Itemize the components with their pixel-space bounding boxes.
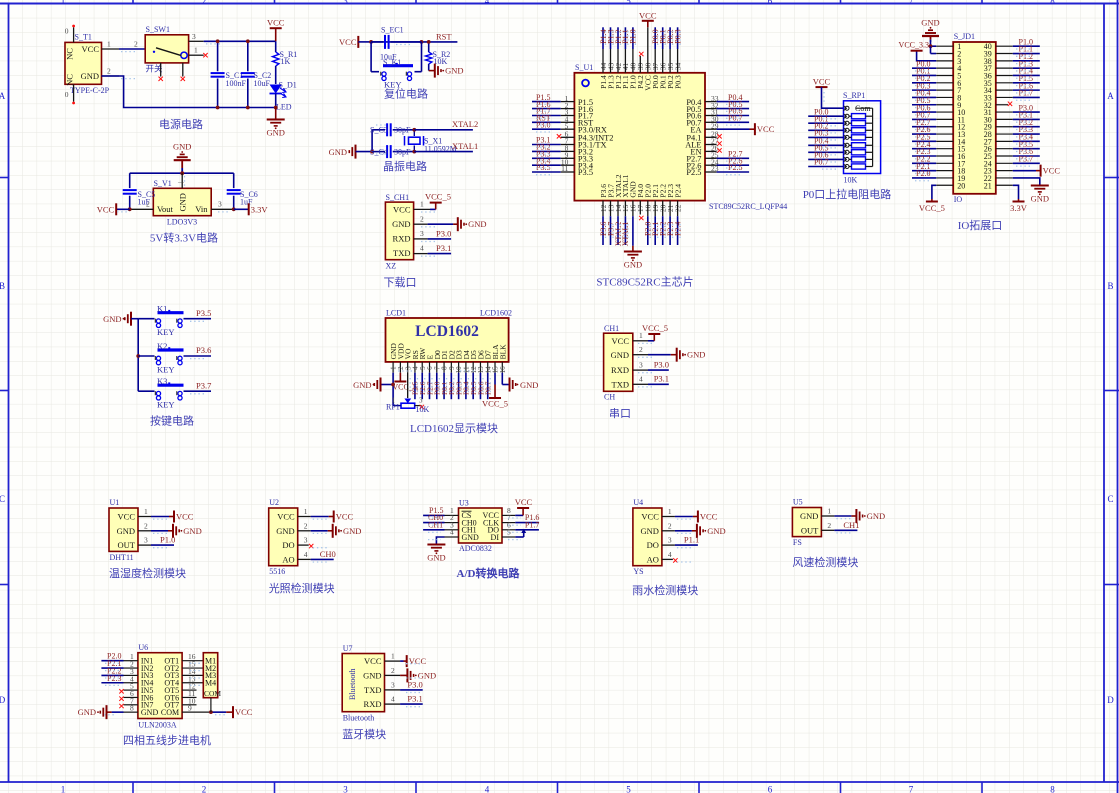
U1 pin 8 P3.2 [532, 143, 593, 157]
ADC U3 ADC0832 body [459, 499, 503, 554]
svg-text:3: 3 [639, 360, 643, 369]
U1 pin 17 P4.0 (bottom) [636, 184, 645, 220]
svg-text:S_JD1: S_JD1 [954, 32, 975, 41]
pushbutton K1 (reset) [371, 42, 421, 90]
U6 pin 1 IN1 [101, 652, 137, 662]
U6 pin 9 COM [182, 704, 253, 719]
svg-text:VCC: VCC [235, 707, 253, 717]
JD1 pin 35 [996, 74, 1040, 83]
svg-text:VCC: VCC [639, 10, 657, 20]
net label P3.5 [196, 308, 211, 318]
JD1 pin 36 [996, 67, 1040, 76]
ground GND above LDO [173, 142, 191, 174]
LCD pin 8 net P0.1 [440, 373, 449, 400]
JD1 pin 30 [996, 111, 1040, 120]
svg-text:电源电路: 电源电路 [159, 117, 203, 131]
svg-text:VCC_5: VCC_5 [482, 399, 508, 409]
U1 pin 43 P1.3 (top) [606, 27, 615, 89]
svg-text:下载口: 下载口 [384, 276, 417, 289]
svg-text:DO: DO [647, 540, 659, 550]
LCD pin 10 [455, 362, 463, 374]
U1 pin 36 P0.1 (top) [659, 27, 668, 89]
U3 pin 6 net P1.7 [502, 520, 539, 529]
JD1 pin 5 net P0.1 [912, 67, 953, 76]
LCD pin 4 net P2.5 [411, 373, 420, 400]
net label RST [436, 32, 452, 42]
U1 pin 1 VCC [138, 507, 194, 523]
connector T1 (TYPE-C-2P) [65, 33, 110, 96]
caption P0 pullup [803, 187, 892, 201]
wire XTAL1 [414, 141, 478, 152]
svg-text:温湿度检测模块: 温湿度检测模块 [109, 566, 186, 580]
module U5 body [792, 498, 821, 548]
svg-text:晶振电路: 晶振电路 [383, 159, 427, 173]
svg-text:2: 2 [202, 0, 207, 6]
svg-text:TYPE-C-2P: TYPE-C-2P [70, 86, 110, 95]
JD1 pin 1 GND [929, 42, 954, 48]
RP1 net P0.4 [808, 137, 843, 146]
svg-text:S_C3: S_C3 [370, 126, 388, 135]
svg-text:VCC: VCC [118, 512, 136, 522]
svg-text:1: 1 [391, 652, 395, 661]
LCD pin 5 net P2.6 [418, 373, 427, 400]
LCD pin 11 net P0.4 [462, 373, 471, 400]
svg-text:U1: U1 [110, 498, 120, 507]
T1 pin 0 top stub [65, 25, 75, 43]
RP1 net P0.6 [808, 151, 843, 160]
U4 pin 1 VCC [662, 507, 718, 523]
LCD pin 12 [470, 362, 478, 374]
svg-text:1K: 1K [281, 57, 291, 66]
svg-text:C: C [0, 494, 5, 504]
svg-text:2: 2 [107, 67, 111, 76]
caption LCD module [410, 422, 498, 435]
svg-text:5: 5 [626, 785, 631, 793]
JD1 pin 37 [996, 59, 1040, 68]
svg-text:KEY: KEY [157, 364, 174, 374]
svg-text:LCD1: LCD1 [386, 309, 406, 318]
svg-text:21: 21 [984, 181, 992, 190]
svg-text:A/D转换电路: A/D转换电路 [457, 566, 521, 580]
svg-text:串口: 串口 [609, 407, 631, 420]
svg-text:U2: U2 [269, 498, 279, 507]
module U1 body [109, 498, 138, 562]
svg-text:A: A [0, 91, 6, 101]
svg-text:IO拓展口: IO拓展口 [958, 218, 1003, 232]
svg-text:GND: GND [141, 708, 159, 717]
svg-text:GND: GND [81, 71, 99, 81]
LCD pin 11 [463, 362, 471, 373]
svg-text:2: 2 [420, 214, 424, 223]
wire LDO top bus [130, 171, 234, 209]
svg-text:复位电路: 复位电路 [384, 87, 428, 101]
svg-text:P3.5: P3.5 [578, 168, 593, 177]
SW1 pin 3 [189, 32, 204, 42]
LCD pin 7 [433, 362, 441, 373]
svg-text:8: 8 [1050, 0, 1055, 6]
svg-text:VCC_5: VCC_5 [642, 323, 668, 333]
RP1 net P0.5 [808, 144, 843, 153]
svg-text:OUT: OUT [801, 525, 819, 535]
svg-text:P0口上拉电阻电路: P0口上拉电阻电路 [803, 187, 892, 201]
capacitor C3 30pF [370, 123, 414, 136]
svg-text:按键电路: 按键电路 [150, 414, 194, 428]
svg-text:1: 1 [827, 507, 831, 516]
U1 pin 26 EN [690, 144, 721, 157]
U3 pin 4 to GND [427, 528, 458, 563]
U1 pin 18 P2.0 (bottom) [644, 184, 653, 245]
svg-text:4: 4 [450, 528, 454, 537]
svg-text:3.3V: 3.3V [1010, 203, 1028, 213]
svg-text:Bluetooth: Bluetooth [348, 668, 357, 700]
svg-text:5V转3.3V电路: 5V转3.3V电路 [150, 231, 218, 245]
U1 pin 28 P4.1 [686, 130, 721, 143]
svg-text:4: 4 [485, 0, 490, 6]
svg-text:C: C [1107, 494, 1113, 504]
svg-text:P3.6: P3.6 [196, 345, 211, 355]
svg-text:COM: COM [204, 689, 221, 698]
caption power circuit [159, 117, 203, 131]
JD1 pin 3 VCC_3.3 [899, 41, 954, 61]
svg-text:2: 2 [304, 521, 308, 530]
svg-text:GND: GND [520, 380, 538, 390]
power VCC [267, 18, 285, 42]
U1 pin 11 P3.5 [532, 163, 593, 177]
svg-text:P3.0: P3.0 [536, 120, 550, 129]
U3 pin 1 net P1.5 [423, 506, 458, 515]
svg-text:11: 11 [561, 164, 568, 173]
svg-text:LED: LED [276, 103, 292, 112]
svg-text:VCC: VCC [97, 204, 115, 214]
svg-text:VCC: VCC [336, 512, 354, 522]
svg-text:5516: 5516 [269, 567, 285, 576]
svg-text:4: 4 [304, 550, 308, 559]
LED D1 [270, 81, 297, 112]
JD1 pin 39 [996, 45, 1040, 54]
svg-text:2: 2 [391, 666, 395, 675]
svg-text:S_K1: S_K1 [383, 58, 401, 67]
U3 pin 7 net P1.6 [502, 513, 539, 522]
svg-text:GND: GND [266, 128, 284, 138]
svg-text:2: 2 [144, 521, 148, 530]
LCD pin15 VCC_5 [482, 373, 508, 409]
wire crystal left trunk [370, 130, 374, 154]
U7 pin 4 net P3.1 [385, 694, 423, 705]
JD1 pin 20 VCC_5 [919, 185, 953, 213]
caption download port [384, 276, 417, 289]
power VCC at Vout [97, 203, 130, 215]
svg-text:D: D [0, 695, 6, 705]
svg-text:1uF: 1uF [138, 198, 151, 207]
U1 pin 14 XTAL2 (bottom) [614, 174, 623, 246]
svg-text:RXD: RXD [611, 365, 629, 375]
ground GND of keys [103, 312, 138, 326]
U6 pin 6 IN6 [119, 689, 138, 701]
svg-text:30pF: 30pF [394, 147, 411, 156]
svg-text:1: 1 [392, 397, 396, 405]
svg-text:VCC: VCC [757, 124, 775, 134]
svg-text:4: 4 [668, 550, 672, 559]
U6 pin 16 OT1 [182, 652, 203, 661]
svg-text:Vout: Vout [157, 204, 174, 214]
U3 pin 8 VCC [502, 497, 533, 515]
U1 pin 4 RST [532, 114, 593, 128]
svg-text:P2.4: P2.4 [673, 222, 682, 236]
svg-text:1: 1 [107, 40, 111, 49]
svg-text:P3.1: P3.1 [654, 374, 669, 384]
svg-text:100nF: 100nF [226, 79, 247, 88]
U1 pin 23 P2.5 [686, 163, 749, 177]
svg-text:3: 3 [218, 199, 222, 208]
svg-text:LCD1602: LCD1602 [480, 309, 512, 318]
LCD pin 12 net P0.5 [469, 373, 478, 400]
svg-text:2: 2 [827, 521, 831, 530]
svg-text:S_D1: S_D1 [279, 81, 297, 90]
svg-text:VCC: VCC [1043, 166, 1061, 176]
JD1 pin 40 [996, 37, 1040, 46]
U6 pin 7 IN7 [119, 696, 138, 708]
U1 pin 9 P3.3 [532, 150, 593, 164]
LCD pin16 wire to GND [502, 373, 508, 385]
U1 pin 1 P1.5 [532, 93, 593, 107]
connector CH1 download port [385, 193, 413, 271]
LCD pin 14 [484, 362, 492, 374]
svg-text:ULN2003A: ULN2003A [138, 721, 176, 730]
power 3.3V at Vin [234, 203, 269, 215]
svg-text:GND: GND [445, 66, 463, 76]
svg-text:P0.3: P0.3 [673, 29, 682, 43]
svg-text:1: 1 [420, 200, 424, 209]
U6 pin 11 OT6 [182, 689, 196, 698]
JD1 pin 33 [996, 89, 1040, 98]
svg-text:7: 7 [909, 785, 914, 793]
ground GND of reset [429, 64, 464, 78]
JD1 pin 7 net P0.3 [912, 81, 953, 90]
RP1 net P0.2 [808, 122, 843, 131]
svg-text:U7: U7 [343, 644, 353, 653]
svg-text:XTAL1: XTAL1 [621, 222, 630, 247]
svg-text:P1.7: P1.7 [525, 520, 539, 529]
JD1 pin 22 GND [996, 178, 1049, 204]
connector CH serial [604, 324, 633, 402]
JD1 pin 24 [996, 155, 1040, 164]
U7 pin 1 VCC [385, 652, 427, 668]
JD1 pin 19 net P2.0 [912, 169, 953, 178]
svg-text:2: 2 [134, 40, 138, 49]
svg-text:3: 3 [343, 785, 348, 793]
JD1 pin 13 net P2.6 [912, 125, 953, 134]
svg-text:GND: GND [427, 553, 445, 563]
U1 pin 21 P2.3 (bottom) [666, 184, 675, 245]
U1 pin 6 P4.3/INT2 [557, 130, 614, 143]
LCD pin 2 [397, 362, 405, 373]
svg-text:VCC: VCC [176, 512, 194, 522]
svg-text:KEY: KEY [157, 400, 174, 410]
U1 pin 40 P1.0 (top) [629, 27, 638, 89]
svg-text:TXD: TXD [364, 685, 381, 695]
U1 pin 25 P2.7 [686, 150, 749, 164]
svg-text:K1: K1 [157, 304, 167, 314]
svg-text:P3.1: P3.1 [436, 243, 451, 253]
U1 pin 13 P3.7 (bottom) [606, 184, 615, 245]
SW1 bottom stub pins [159, 63, 186, 81]
svg-text:1: 1 [61, 0, 66, 6]
potentiometer RP1 10K [386, 397, 430, 415]
U1 pin 16 GND (bottom) [624, 181, 642, 270]
crystal X1 11.0592M [405, 128, 457, 154]
svg-text:FS: FS [793, 538, 802, 547]
caption IO expansion [958, 218, 1003, 232]
U1 pin 41 P1.1 (top) [621, 27, 630, 89]
JD1 pin 26 [996, 140, 1040, 149]
T1 pin 2 [102, 67, 120, 77]
svg-text:KEY: KEY [157, 327, 174, 337]
JD1 pin 29 [996, 118, 1040, 127]
U6 pin 8 GND [78, 704, 138, 720]
JD1 pin 12 net P2.7 [912, 118, 953, 127]
svg-text:P3.1: P3.1 [407, 694, 422, 704]
U1 pin 38 VCC (top) [639, 10, 657, 90]
driver U6 ULN2003A body [138, 643, 182, 730]
svg-text:LCD1602: LCD1602 [415, 323, 479, 340]
U4 pin 3 DO [662, 535, 699, 546]
JD1 pin 8 net P0.4 [912, 89, 953, 98]
caption 雨水检测模块 [632, 583, 698, 597]
RP1 net P0.0 [808, 107, 843, 116]
svg-text:GND: GND [800, 511, 818, 521]
svg-text:K3: K3 [157, 376, 167, 386]
svg-text:VCC_5: VCC_5 [425, 192, 451, 202]
svg-text:DHT11: DHT11 [110, 553, 134, 562]
svg-text:20: 20 [957, 181, 965, 190]
svg-text:K2: K2 [157, 341, 167, 351]
U1 pin 19 P2.1 (bottom) [651, 184, 660, 245]
U2 pin 2 GND [298, 521, 362, 538]
svg-text:蓝牙模块: 蓝牙模块 [342, 728, 386, 741]
pushbutton K3 [138, 376, 211, 410]
svg-text:NC: NC [65, 48, 75, 60]
svg-text:9: 9 [188, 704, 192, 713]
U7 pin 3 net P3.0 [385, 679, 423, 690]
svg-text:8: 8 [130, 704, 134, 713]
svg-text:VCC: VCC [700, 512, 718, 522]
U1 pin 37 P0.0 (top) [651, 27, 660, 89]
XZ pin 2 to GND [414, 214, 487, 231]
svg-text:S_SW1: S_SW1 [146, 25, 170, 34]
svg-text:LCD1602显示模块: LCD1602显示模块 [410, 422, 498, 435]
XZ pin 3 net P3.0 [414, 229, 452, 239]
power VCC reset [339, 36, 371, 48]
svg-text:DI: DI [491, 533, 500, 542]
LCD pin 16 [499, 362, 507, 374]
U6 pin 3 IN3 [101, 666, 137, 676]
svg-text:GND: GND [363, 670, 381, 680]
LCD pin 7 net P0.0 [433, 373, 442, 400]
JD1 pin 4 net P0.0 [912, 59, 953, 68]
svg-text:IO: IO [954, 195, 963, 204]
svg-text:STC89C52RC_LQFP44: STC89C52RC_LQFP44 [709, 202, 787, 211]
module U2 body [269, 498, 298, 576]
U1 pin 34 P0.3 (top) [673, 27, 682, 89]
svg-text:GND: GND [611, 350, 629, 360]
svg-text:GND: GND [867, 511, 885, 521]
svg-text:U5: U5 [793, 498, 803, 507]
LCD pin 4 [412, 362, 420, 373]
U1 pin 12 P3.6 (bottom) [599, 184, 608, 245]
LCD pin 9 net P0.2 [447, 373, 456, 400]
JD1 pin 34 [996, 81, 1040, 90]
motor connector M header [203, 653, 221, 712]
svg-text:3: 3 [668, 536, 672, 545]
svg-text:GND: GND [353, 380, 371, 390]
U1 pin 44 P1.4 (top) [599, 27, 608, 89]
svg-text:0: 0 [65, 27, 69, 36]
LCD pin 8 [441, 362, 449, 373]
svg-text:XTAL2: XTAL2 [452, 119, 478, 129]
U1 pin 3 OUT [138, 535, 175, 546]
svg-text:OUT: OUT [118, 540, 136, 550]
LCD pin 13 [477, 362, 485, 374]
caption 光照检测模块 [269, 581, 335, 595]
U1 pin 20 P2.2 (bottom) [659, 184, 668, 245]
svg-text:10K: 10K [416, 405, 430, 414]
JD1 pin 15 net P2.4 [912, 140, 953, 149]
LCD pin 10 net P0.3 [454, 373, 463, 400]
svg-text:S_EC1: S_EC1 [381, 26, 404, 35]
svg-text:M4: M4 [205, 679, 216, 688]
U1 pin 3 P1.7 [532, 107, 593, 121]
LCD1602 module body [386, 309, 513, 362]
caption crystal circuit [383, 159, 427, 173]
svg-text:GND: GND [276, 526, 294, 536]
svg-text:P1.0: P1.0 [629, 29, 638, 43]
ground GND above JD1 [921, 17, 939, 42]
wire reset top rail [369, 40, 457, 44]
svg-text:VCC: VCC [277, 512, 295, 522]
capacitor C4 30pF [370, 145, 414, 158]
svg-text:Vin: Vin [195, 204, 208, 214]
pushbutton K1 [138, 304, 211, 338]
CH pin 2 to GND [633, 345, 706, 362]
svg-text:S_CH1: S_CH1 [386, 193, 410, 202]
module U7 Bluetooth body [342, 644, 384, 723]
svg-text:5: 5 [626, 0, 631, 6]
switch SW1 [145, 25, 188, 74]
svg-text:GND: GND [183, 526, 201, 536]
U1 pin 22 P2.4 (bottom) [673, 184, 682, 245]
svg-text:1: 1 [194, 46, 198, 55]
CH pin 3 net P3.0 [633, 359, 669, 370]
svg-text:XZ: XZ [386, 262, 397, 271]
svg-text:B: B [0, 281, 5, 291]
svg-text:CH: CH [604, 393, 615, 402]
svg-text:风速检测模块: 风速检测模块 [792, 555, 858, 569]
pushbutton K2 [138, 341, 211, 375]
wire SW1 to VCC rail [204, 40, 276, 42]
U5 pin 1 GND [821, 507, 885, 524]
svg-text:P3.0: P3.0 [407, 679, 422, 689]
svg-text:3: 3 [343, 0, 348, 6]
LCD pin 14 net P0.7 [484, 373, 493, 400]
capacitor C1 [211, 39, 247, 109]
JD1 pin 2 GND [931, 46, 954, 53]
svg-text:TXD: TXD [612, 380, 629, 390]
ground GND left of LCD [353, 378, 380, 392]
wire key trunk [136, 319, 140, 392]
svg-text:6: 6 [768, 0, 773, 6]
svg-text:VCC: VCC [641, 512, 659, 522]
ground GND of crystal [329, 145, 373, 159]
